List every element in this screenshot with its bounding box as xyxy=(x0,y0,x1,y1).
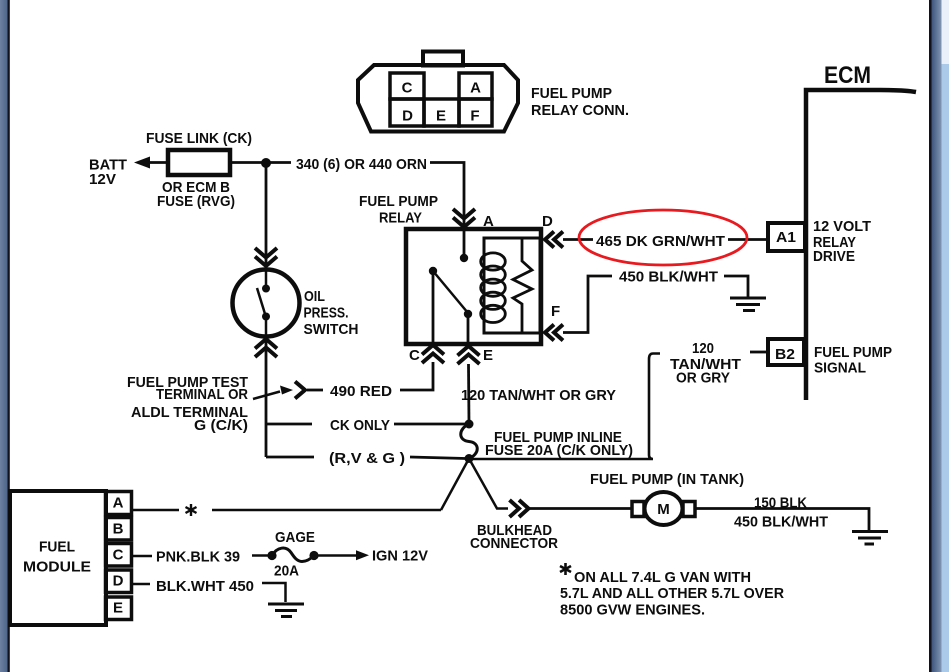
wire 340 ORN from fuse to relay xyxy=(230,163,464,259)
relay pin E chevron xyxy=(458,346,480,364)
wire CK ONLY branch xyxy=(266,423,466,426)
svg-text:IGN 12V: IGN 12V xyxy=(372,548,428,565)
wire 465 DK GRN/WHT to ECM A1 xyxy=(563,238,768,241)
node below inline fuse xyxy=(465,454,474,463)
svg-text:CK ONLY: CK ONLY xyxy=(330,417,390,434)
svg-text:RELAY CONN.: RELAY CONN. xyxy=(531,102,629,119)
svg-text:150 BLK: 150 BLK xyxy=(754,495,807,512)
svg-text:5.7L AND ALL OTHER 5.7L OVER: 5.7L AND ALL OTHER 5.7L OVER xyxy=(560,585,784,602)
fuel module pin E xyxy=(106,597,132,620)
svg-text:GAGE: GAGE xyxy=(275,529,315,546)
svg-text:E: E xyxy=(113,599,123,616)
inline connector chevron above oil switch xyxy=(255,248,277,266)
relay pin F chevron xyxy=(545,325,563,341)
relay K1 box xyxy=(406,229,541,344)
label 150 BLK / 450 BLK WHT xyxy=(734,495,828,531)
svg-text:FUEL PUMP (IN TANK): FUEL PUMP (IN TANK) xyxy=(590,471,744,488)
svg-text:340 (6) OR 440 ORN: 340 (6) OR 440 ORN xyxy=(296,156,427,173)
inline connector chevron at relay pin A xyxy=(453,209,475,227)
relay pin C chevron xyxy=(422,345,444,363)
svg-text:120 TAN/WHT OR GRY: 120 TAN/WHT OR GRY xyxy=(461,387,616,404)
test terminal chevron xyxy=(295,382,305,399)
wire bulkhead to fuel pump motor xyxy=(529,507,633,510)
svg-text:12 VOLT: 12 VOLT xyxy=(813,218,871,235)
relay pin labels xyxy=(409,213,560,364)
fuel pump motor M1 xyxy=(632,492,695,525)
wire into gage fuse xyxy=(252,554,268,557)
connector J1 cavity C xyxy=(390,73,424,99)
svg-text:ON ALL 7.4L G VAN WITH: ON ALL 7.4L G VAN WITH xyxy=(574,569,751,586)
wire fuel module D BLK WHT 450 xyxy=(132,583,150,586)
svg-text:E: E xyxy=(483,347,493,364)
svg-text:D: D xyxy=(113,572,124,589)
svg-text:F: F xyxy=(470,108,479,125)
svg-text:FUSE (RVG): FUSE (RVG) xyxy=(157,193,235,210)
wire fuel module C PNK BLK 39 xyxy=(132,555,152,558)
inline connector chevron below oil switch xyxy=(255,339,277,357)
highlight ellipse around 465 wire xyxy=(579,210,747,265)
fuel pump inline fuse F2 squiggle xyxy=(461,424,478,459)
svg-text:20A: 20A xyxy=(274,563,299,580)
svg-text:C: C xyxy=(113,547,124,564)
svg-text:C: C xyxy=(409,347,420,364)
wire relay E output down xyxy=(467,364,470,424)
bulkhead connector chevron xyxy=(510,500,529,517)
gage fuse F3 xyxy=(267,548,318,561)
ground G2 at fuel pump xyxy=(852,532,888,545)
relay switch contacts xyxy=(429,254,472,344)
svg-text:D: D xyxy=(402,108,413,125)
star note marker in footnote xyxy=(560,563,571,575)
ground G3 at fuel module D xyxy=(268,604,304,617)
svg-text:OIL: OIL xyxy=(304,288,325,305)
right border bar xyxy=(929,0,949,672)
svg-text:A: A xyxy=(470,80,481,97)
wire oil switch output down xyxy=(265,337,268,457)
BATT 12V terminal arrow xyxy=(89,157,168,189)
svg-text:A: A xyxy=(113,495,124,512)
wire stub at B2 xyxy=(750,351,766,354)
svg-text:BLK.WHT 450: BLK.WHT 450 xyxy=(156,578,254,595)
wire batt feed down to oil pressure switch xyxy=(265,163,268,270)
svg-text:FUSE LINK (CK): FUSE LINK (CK) xyxy=(146,130,252,147)
relay resistor R1 xyxy=(513,238,532,333)
fuel module pin B xyxy=(106,518,132,541)
svg-text:MODULE: MODULE xyxy=(23,559,91,576)
svg-text:OR GRY: OR GRY xyxy=(676,370,730,387)
svg-text:SIGNAL: SIGNAL xyxy=(814,360,866,377)
fuel module pin D xyxy=(106,570,132,593)
ECM terminal B2 xyxy=(768,339,804,365)
svg-text:A: A xyxy=(483,213,494,230)
svg-text:F: F xyxy=(551,303,560,320)
label oil press switch xyxy=(304,288,359,338)
label GAGE 20A xyxy=(274,529,315,580)
fuel module pin A xyxy=(106,492,132,515)
relay coil enclosure xyxy=(484,238,540,333)
svg-text:FUSE 20A (C/K ONLY): FUSE 20A (C/K ONLY) xyxy=(485,442,633,459)
svg-text:SWITCH: SWITCH xyxy=(304,321,359,338)
relay pin D chevron xyxy=(545,232,563,248)
ECM module boundary line xyxy=(806,90,916,400)
label fuel pump relay xyxy=(359,193,438,227)
wire D to ground xyxy=(262,583,286,602)
label fuel pump test terminal xyxy=(127,374,248,434)
svg-text:(R,V & G ): (R,V & G ) xyxy=(329,450,405,467)
node junction at fuse output xyxy=(261,158,271,168)
label fuel pump inline fuse xyxy=(485,429,633,459)
connector J1 cavity F xyxy=(459,99,492,126)
wire fuel module A to junction xyxy=(132,509,441,512)
svg-text:8500 GVW ENGINES.: 8500 GVW ENGINES. xyxy=(560,602,705,619)
relay coil L1 xyxy=(481,253,506,323)
label bulkhead connector xyxy=(470,522,558,552)
wire slant to fuel module A wire xyxy=(441,459,469,511)
svg-text:12V: 12V xyxy=(89,171,116,188)
svg-text:CONNECTOR: CONNECTOR xyxy=(470,535,558,552)
connector J1 cavity D xyxy=(390,99,424,126)
label fuel pump relay conn xyxy=(531,85,629,119)
svg-text:A1: A1 xyxy=(776,229,796,246)
svg-text:E: E xyxy=(436,108,446,125)
star note marker on wire A xyxy=(186,504,197,516)
svg-text:C: C xyxy=(402,80,413,97)
left border bar xyxy=(0,0,10,672)
wire (R,V & G) branch xyxy=(266,457,466,459)
svg-text:FUEL PUMP: FUEL PUMP xyxy=(531,85,612,102)
fuel module pin C xyxy=(106,544,132,567)
svg-text:TERMINAL OR: TERMINAL OR xyxy=(156,386,248,403)
wire slant to bulkhead connector xyxy=(469,459,508,509)
svg-text:RELAY: RELAY xyxy=(379,210,422,227)
svg-text:465 DK GRN/WHT: 465 DK GRN/WHT xyxy=(596,233,725,250)
wire motor to ground xyxy=(695,509,869,532)
wire B2 signal bracket down to inline fuse node xyxy=(473,354,660,460)
ground G1 for 450 BLK/WHT xyxy=(730,298,766,311)
fuel module box xyxy=(10,491,106,625)
svg-text:FUEL PUMP: FUEL PUMP xyxy=(359,193,438,210)
wire 490 RED from test terminal to relay C xyxy=(307,362,433,390)
svg-text:450 BLK/WHT: 450 BLK/WHT xyxy=(619,269,718,286)
svg-text:ECM: ECM xyxy=(824,62,871,89)
svg-text:B2: B2 xyxy=(775,346,795,363)
label 120 TAN/WHT OR GRY (right block) xyxy=(670,340,741,387)
connector J1 cavity A xyxy=(459,73,492,99)
label 12 volt relay drive xyxy=(813,218,871,265)
svg-text:PRESS.: PRESS. xyxy=(304,305,349,322)
svg-text:120: 120 xyxy=(692,340,714,357)
connector J1 fuel pump relay connector outline xyxy=(358,52,518,132)
svg-text:G (C/K): G (C/K) xyxy=(194,417,248,434)
wire 450 BLK/WHT from relay F to ground xyxy=(563,276,748,333)
svg-text:B: B xyxy=(113,521,124,538)
svg-text:490 RED: 490 RED xyxy=(330,383,392,400)
wire arrow to IGN 12V xyxy=(318,550,369,560)
ECM terminal A1 xyxy=(768,223,805,251)
svg-text:PNK.BLK 39: PNK.BLK 39 xyxy=(156,549,240,566)
label fuel pump signal xyxy=(814,344,892,377)
svg-text:FUEL: FUEL xyxy=(39,539,75,556)
arrow pointer to test terminal xyxy=(253,386,293,400)
node above inline fuse xyxy=(465,420,474,429)
connector J1 cavity E xyxy=(424,99,459,126)
note text xyxy=(560,569,784,619)
fuse link F1 xyxy=(146,130,252,210)
svg-text:450 BLK/WHT: 450 BLK/WHT xyxy=(734,514,828,531)
oil pressure switch S1 xyxy=(233,270,300,337)
svg-text:M: M xyxy=(657,501,670,518)
svg-text:DRIVE: DRIVE xyxy=(813,248,855,265)
svg-text:FUEL PUMP: FUEL PUMP xyxy=(814,344,892,361)
svg-text:D: D xyxy=(542,213,553,230)
